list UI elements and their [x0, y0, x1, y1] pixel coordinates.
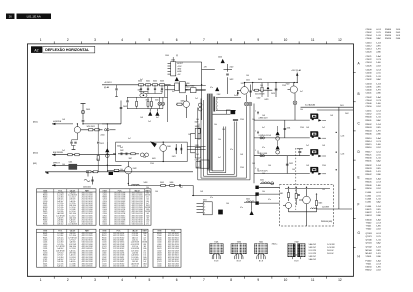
service pin black square: [226, 110, 235, 114]
warning arrow left: [105, 124, 109, 172]
svg-text:3k3: 3k3: [146, 217, 149, 219]
capacitor C2431: [284, 120, 291, 138]
svg-text:2-E5 2n2: 2-E5 2n2: [69, 259, 75, 261]
svg-text:VALUE: VALUE: [70, 230, 76, 233]
svg-text:M1402: M1402: [366, 253, 373, 255]
svg-text:C2402: C2402: [157, 250, 162, 252]
wire EW box to bus: [187, 147, 205, 150]
capacitor C2425 mid loop: [233, 119, 238, 120]
svg-text:2-C5 47n: 2-C5 47n: [57, 207, 63, 209]
svg-text:4822 050 52348: 4822 050 52348: [168, 250, 179, 252]
svg-text:2422: 2422: [230, 67, 234, 69]
svg-text:3422: 3422: [230, 79, 234, 81]
svg-text:R3414: R3414: [366, 141, 373, 143]
svg-text:1: 1: [204, 204, 205, 206]
svg-text:1: 1: [40, 38, 42, 42]
svg-text:L5440: L5440: [366, 206, 373, 208]
svg-text:7: 7: [203, 38, 205, 42]
svg-text:7441: 7441: [259, 241, 263, 243]
svg-text:4u7: 4u7: [180, 187, 183, 189]
svg-text:1-D4 680: 1-D4 680: [132, 253, 138, 255]
svg-text:1402: 1402: [257, 98, 261, 100]
svg-text:R3404: R3404: [366, 130, 373, 132]
svg-text:R3442: R3442: [366, 174, 373, 176]
svg-text:100: 100: [292, 169, 295, 171]
net stub GND with arrow: [52, 163, 122, 167]
column numbers bottom ruler: [40, 278, 342, 282]
pinout block 7441: [255, 241, 268, 262]
svg-text:100k: 100k: [143, 233, 147, 235]
svg-text:2420: 2420: [218, 57, 222, 59]
svg-text:10k: 10k: [262, 191, 265, 193]
divider R3412 C2412: [97, 124, 104, 172]
svg-text:4u7: 4u7: [144, 237, 147, 239]
value labels: [62, 75, 333, 209]
svg-text:D6421: D6421: [102, 248, 107, 250]
svg-text:47n: 47n: [146, 197, 149, 199]
svg-text:2-C5 680: 2-C5 680: [69, 263, 75, 265]
svg-text:R3445: R3445: [366, 182, 373, 184]
svg-text:2-C5 3k3: 2-C5 3k3: [57, 197, 63, 199]
svg-text:2: 2: [204, 207, 205, 209]
pincushion module dashed box: [280, 185, 334, 226]
svg-text:2122 341 96162: 2122 341 96162: [114, 201, 125, 203]
svg-text:R3421: R3421: [43, 237, 48, 239]
svg-text:2: 2: [255, 168, 256, 170]
svg-text:2-D6 EW: 2-D6 EW: [322, 206, 329, 208]
svg-text:(6) A6: (6) A6: [104, 86, 109, 89]
capacitor C2421: [246, 79, 252, 97]
svg-text:4822 116 83415: 4822 116 83415: [82, 248, 93, 250]
svg-text:3406: 3406: [181, 101, 185, 103]
wire pincushion bottom: [289, 212, 317, 226]
svg-text:POS.: POS.: [171, 231, 176, 233]
svg-text:5322 310 41234: 5322 310 41234: [82, 222, 93, 224]
svg-text:B C E: B C E: [259, 261, 263, 263]
svg-text:R3400: R3400: [43, 220, 48, 222]
svg-text:4822 116 83415: 4822 116 83415: [114, 224, 125, 226]
svg-text:4u7: 4u7: [128, 138, 131, 140]
svg-text:10k: 10k: [252, 119, 255, 121]
svg-text:R3410: R3410: [366, 138, 373, 140]
svg-text:4822 050 52348: 4822 050 52348: [114, 193, 125, 195]
svg-text:Q7421: Q7421: [102, 246, 107, 248]
resistor R3420: [195, 122, 201, 141]
svg-text:3415: 3415: [155, 100, 159, 102]
svg-text:2122 341 96162: 2122 341 96162: [113, 248, 124, 250]
svg-text:100: 100: [196, 119, 199, 121]
deflection yoke wiring loop bus: [198, 94, 250, 180]
wire lower bus: [192, 196, 256, 203]
svg-text:1-D4 3k3: 1-D4 3k3: [69, 257, 75, 259]
wire junctions: [77, 82, 337, 196]
svg-text:PART: PART: [143, 230, 147, 233]
svg-text:7422: 7422: [286, 84, 290, 86]
svg-text:2-C5 BY228: 2-C5 BY228: [56, 246, 64, 248]
svg-text:D6440: D6440: [366, 220, 373, 222]
svg-text:4822 050 52348: 4822 050 52348: [82, 257, 93, 259]
svg-text:4u7: 4u7: [140, 79, 143, 81]
svg-text:(B11): (B11): [33, 122, 38, 124]
damper diode D6421: [253, 83, 273, 96]
svg-text:C2441: C2441: [43, 235, 48, 237]
svg-text:2: 2: [67, 278, 69, 282]
svg-text:7421: 7421: [241, 83, 245, 85]
parts table 4: [100, 229, 149, 267]
svg-text:1-C4 33V: 1-C4 33V: [327, 244, 335, 246]
line-output coil connector hook 1: [259, 114, 327, 122]
wire yoke feeder bus: [253, 104, 255, 184]
svg-text:2n2: 2n2: [62, 150, 65, 152]
svg-text:D6450: D6450: [366, 267, 373, 269]
svg-text:2421: 2421: [246, 79, 250, 81]
svg-text:C2402: C2402: [43, 213, 48, 215]
svg-text:7442: 7442: [133, 168, 137, 170]
svg-text:VALUE: VALUE: [132, 230, 138, 233]
svg-text:C2420: C2420: [366, 52, 373, 54]
svg-text:R3410: R3410: [102, 240, 107, 242]
svg-text:PART: PART: [146, 189, 150, 192]
svg-text:2412: 2412: [100, 143, 104, 145]
svg-text:2122 341 96162: 2122 341 96162: [82, 201, 93, 203]
svg-text:5322 310 41234: 5322 310 41234: [113, 259, 124, 261]
svg-text:2-C5 100k: 2-C5 100k: [69, 235, 76, 237]
svg-text:GND: GND: [177, 69, 182, 71]
svg-text:2-C5 10k: 2-C5 10k: [132, 246, 138, 248]
svg-text:Q7421: Q7421: [43, 209, 48, 211]
svg-text:2423: 2423: [271, 93, 275, 95]
capacitor C2402: [102, 101, 127, 124]
svg-text:VALUE: VALUE: [70, 189, 76, 192]
svg-text:4822 122 32655: 4822 122 32655: [82, 215, 93, 217]
svg-text:2n2: 2n2: [148, 121, 151, 123]
coil L5402: [244, 199, 256, 203]
svg-text:4822 152 10346: 4822 152 10346: [168, 246, 179, 248]
svg-text:2: 2: [255, 130, 256, 132]
svg-text:2401: 2401: [86, 109, 90, 111]
svg-text:3-C2 AQUAD: 3-C2 AQUAD: [305, 104, 316, 107]
svg-text:100: 100: [246, 75, 249, 77]
svg-text:3403: 3403: [160, 81, 164, 83]
svg-text:2-C3 4u7: 2-C3 4u7: [69, 197, 75, 199]
driver transformer T7402: [213, 94, 241, 112]
wire yoke rail 3: [254, 155, 310, 157]
svg-text:2-C3 680: 2-C3 680: [132, 235, 138, 237]
svg-text:C2424: C2424: [366, 62, 373, 64]
svg-text:DEFLEXÃO HORIZONTAL: DEFLEXÃO HORIZONTAL: [45, 47, 90, 52]
svg-text:C2428: C2428: [366, 70, 373, 72]
svg-text:POS.: POS.: [58, 231, 63, 233]
svg-text:C2412: C2412: [366, 46, 373, 48]
svg-text:C2421: C2421: [43, 246, 48, 248]
svg-text:R3402: R3402: [366, 124, 373, 126]
svg-text:R3433: R3433: [102, 197, 107, 199]
svg-text:4822 152 10346: 4822 152 10346: [82, 207, 93, 209]
row letters right ruler: [358, 62, 361, 259]
warning arrow 3: [218, 57, 225, 64]
svg-text:POS.: POS.: [58, 190, 63, 192]
svg-text:2-E1: 2-E1: [340, 105, 344, 107]
resistor on ground bus: [86, 171, 97, 173]
svg-text:1k8: 1k8: [140, 117, 143, 119]
svg-text:1k8: 1k8: [322, 145, 325, 147]
svg-text:8: 8: [230, 278, 232, 282]
svg-text:10: 10: [284, 38, 288, 42]
plug P1 on rail2: [260, 137, 265, 139]
jumper plug 2: [248, 102, 252, 106]
svg-text:C2421: C2421: [102, 211, 107, 213]
svg-text:D6423: D6423: [102, 250, 107, 252]
column numbers top ruler: [40, 38, 342, 42]
svg-text:5: 5: [149, 38, 151, 42]
wire +13V feed: [291, 69, 301, 83]
svg-text:C2421: C2421: [366, 56, 373, 58]
svg-text:C2426: C2426: [366, 65, 373, 67]
svg-text:2431: 2431: [287, 127, 291, 129]
svg-text:L5400: L5400: [43, 244, 47, 246]
svg-text:2n2: 2n2: [322, 127, 325, 129]
svg-text:ITEM: ITEM: [102, 231, 107, 233]
svg-text:5322 310 41234: 5322 310 41234: [168, 261, 179, 263]
svg-text:2-B6 BY228: 2-B6 BY228: [56, 250, 64, 252]
svg-text:3424: 3424: [258, 79, 262, 81]
svg-text:2-B6 100k: 2-B6 100k: [69, 205, 76, 207]
svg-text:EW-DRIVE: EW-DRIVE: [53, 152, 64, 154]
svg-text:2: 2: [67, 38, 69, 42]
svg-text:47n: 47n: [230, 149, 233, 151]
svg-text:R3400: R3400: [43, 217, 48, 219]
svg-text:Q7403: Q7403: [366, 233, 373, 235]
svg-text:4822 050 52348: 4822 050 52348: [114, 195, 125, 197]
svg-text:10k: 10k: [218, 139, 221, 141]
svg-text:1-C8: 1-C8: [341, 153, 345, 155]
svg-text:ITEM: ITEM: [103, 190, 108, 192]
svg-text:4822 050 52348: 4822 050 52348: [132, 215, 143, 217]
svg-text:4-C4 4u7: 4-C4 4u7: [69, 215, 75, 217]
svg-text:10k: 10k: [144, 235, 147, 237]
svg-text:4u7: 4u7: [218, 157, 221, 159]
wire yoke rail 1: [254, 119, 310, 121]
row letter tick marks: [354, 73, 356, 248]
svg-text:R3421: R3421: [102, 207, 107, 209]
svg-text:100k: 100k: [146, 209, 150, 211]
svg-text:1-C4 33V: 1-C4 33V: [327, 247, 335, 249]
svg-text:T7401: T7401: [366, 226, 373, 228]
svg-text:1k8: 1k8: [268, 135, 271, 137]
svg-text:1-F3 3k3: 1-F3 3k3: [57, 235, 63, 237]
svg-text:C2430: C2430: [366, 73, 373, 75]
svg-text:4822 122 32655: 4822 122 32655: [82, 211, 93, 213]
svg-text:100: 100: [62, 164, 65, 166]
capacitor C2401: [115, 85, 118, 97]
ground arrow: [250, 202, 254, 215]
svg-text:4822 116 83415: 4822 116 83415: [132, 193, 143, 195]
svg-text:9: 9: [257, 278, 259, 282]
rail pin marks: [255, 111, 258, 172]
capacitor C2433: [297, 149, 303, 156]
schematic frame: [27, 44, 354, 277]
svg-text:R3410: R3410: [102, 237, 107, 239]
svg-text:4822 122 32655: 4822 122 32655: [168, 253, 179, 255]
jumper plug 3: [293, 101, 297, 120]
svg-text:4822 122 32655: 4822 122 32655: [132, 205, 143, 207]
svg-text:2442: 2442: [120, 150, 124, 152]
svg-text:2122 341 96162: 2122 341 96162: [132, 220, 143, 222]
svg-text:7421: 7421: [214, 241, 218, 243]
svg-text:4822 122 32655: 4822 122 32655: [132, 207, 143, 209]
svg-text:2122 341 96162: 2122 341 96162: [113, 263, 124, 265]
svg-text:R3414: R3414: [385, 38, 392, 40]
svg-text:Q7421: Q7421: [43, 261, 48, 263]
svg-text:R3417: R3417: [366, 151, 373, 153]
svg-text:R3432: R3432: [366, 165, 373, 167]
svg-text:Q7442: Q7442: [366, 247, 373, 249]
EW output coil L5442: [311, 206, 353, 209]
svg-text:1500: 1500: [171, 60, 175, 62]
svg-text:ITEM: ITEM: [157, 231, 162, 233]
svg-text:4: 4: [204, 213, 205, 215]
svg-text:R3421: R3421: [43, 215, 48, 217]
svg-text:6423: 6423: [265, 99, 269, 101]
wire top mid: [224, 64, 234, 94]
svg-text:1-C6 1N41: 1-C6 1N41: [131, 259, 138, 261]
svg-text:R3443: R3443: [366, 179, 373, 181]
svg-text:L5400: L5400: [103, 224, 107, 226]
svg-text:4u7: 4u7: [156, 117, 159, 119]
svg-text:C2431: C2431: [43, 248, 48, 250]
svg-text:2-C5 680: 2-C5 680: [69, 266, 75, 268]
svg-text:2122 341 96162: 2122 341 96162: [82, 197, 93, 199]
svg-text:47n: 47n: [144, 250, 147, 252]
svg-text:680: 680: [146, 193, 149, 195]
spark gap arrow pair: [148, 109, 159, 116]
svg-text:100: 100: [143, 157, 146, 159]
svg-text:ITEM: ITEM: [43, 231, 48, 233]
svg-text:B: B: [358, 92, 360, 96]
wire driver collector feed: [176, 62, 215, 120]
svg-text:D6421: D6421: [157, 248, 162, 250]
svg-text:4822 152 10346: 4822 152 10346: [82, 244, 93, 246]
svg-text:R3406: R3406: [385, 32, 392, 34]
svg-text:47n: 47n: [210, 87, 213, 89]
svg-text:1-C6 1N41: 1-C6 1N41: [69, 244, 76, 246]
svg-text:3: 3: [94, 38, 96, 42]
svg-text:2200: 2200: [150, 163, 154, 165]
svg-text:1-C6 10k: 1-C6 10k: [57, 205, 63, 207]
svg-text:2432: 2432: [289, 163, 293, 165]
svg-text:D6421: D6421: [157, 257, 162, 259]
net label B11: [33, 122, 38, 124]
svg-text:A2: A2: [34, 48, 38, 52]
svg-text:D6421: D6421: [102, 222, 107, 224]
svg-text:2-C5 BC858: 2-C5 BC858: [68, 224, 76, 226]
svg-text:C2422: C2422: [366, 59, 373, 61]
svg-text:1k8: 1k8: [330, 115, 333, 117]
svg-text:11: 11: [311, 38, 315, 42]
svg-text:4822 050 52348: 4822 050 52348: [168, 248, 179, 250]
wire output stage top rail: [245, 82, 298, 84]
svg-text:C2410: C2410: [157, 263, 162, 265]
svg-text:1k8: 1k8: [260, 85, 263, 87]
pinout block 7421: [210, 241, 224, 262]
svg-text:C2444: C2444: [366, 100, 373, 102]
svg-text:3n3: 3n3: [234, 95, 237, 97]
svg-text:3n3: 3n3: [120, 147, 123, 149]
svg-text:4822 116 83415: 4822 116 83415: [114, 222, 125, 224]
svg-text:4-C4 3k3: 4-C4 3k3: [57, 195, 63, 197]
svg-text:5322 310 41234: 5322 310 41234: [132, 197, 143, 199]
svg-text:100k: 100k: [143, 257, 147, 259]
feedback network R3421: [191, 103, 203, 168]
svg-text:D6423: D6423: [157, 255, 162, 257]
svg-text:4822 152 10346: 4822 152 10346: [82, 233, 93, 235]
svg-text:100: 100: [268, 165, 271, 167]
svg-text:Q7421: Q7421: [102, 233, 107, 235]
transistor Q7422: [286, 83, 298, 101]
warning arrow rail2: [276, 126, 280, 140]
svg-text:C2441: C2441: [43, 242, 48, 244]
svg-text:4u7: 4u7: [172, 91, 175, 93]
svg-text:R3410: R3410: [43, 195, 48, 197]
svg-text:F: F: [358, 203, 360, 207]
svg-text:R3421: R3421: [102, 203, 107, 205]
svg-text:4822 152 10346: 4822 152 10346: [82, 209, 93, 211]
svg-text:2: 2: [255, 150, 256, 152]
svg-text:R3400: R3400: [366, 117, 373, 119]
svg-text:1k8: 1k8: [200, 191, 203, 193]
svg-text:3404: 3404: [186, 86, 190, 88]
svg-text:3421: 3421: [195, 126, 199, 128]
driver stage U7401: [165, 82, 206, 98]
pin voltage list: [309, 243, 336, 261]
diode D6402: [191, 86, 206, 93]
svg-text:10k: 10k: [214, 124, 217, 126]
svg-text:2-E5 22u: 2-E5 22u: [57, 237, 63, 239]
svg-text:2-E5 1N41: 2-E5 1N41: [131, 250, 138, 252]
svg-text:4822 116 83415: 4822 116 83415: [114, 205, 125, 207]
svg-text:Q7441: Q7441: [366, 242, 373, 244]
connector pin J1: [255, 186, 279, 189]
svg-text:1-F3 4u7: 1-F3 4u7: [69, 240, 75, 242]
svg-text:12: 12: [338, 38, 342, 42]
svg-text:2-C3 22u: 2-C3 22u: [57, 203, 63, 205]
svg-text:100: 100: [226, 203, 229, 205]
svg-text:R3410: R3410: [385, 35, 392, 37]
svg-text:1k8: 1k8: [252, 163, 255, 165]
svg-text:10k: 10k: [300, 109, 303, 111]
svg-text:2200: 2200: [322, 165, 326, 167]
svg-text:2122 341 96162: 2122 341 96162: [168, 259, 179, 261]
svg-text:C2400: C2400: [157, 235, 162, 237]
svg-text:4u7: 4u7: [262, 127, 265, 129]
svg-text:D6424: D6424: [366, 215, 373, 217]
svg-text:R3433: R3433: [157, 259, 162, 261]
svg-text:2200: 2200: [240, 119, 244, 121]
svg-text:100: 100: [188, 134, 191, 136]
coil L5403: [132, 184, 140, 185]
svg-text:1-D4 BY228: 1-D4 BY228: [131, 242, 139, 244]
svg-text:R3446: R3446: [366, 185, 373, 187]
svg-text:1-C6 1n5: 1-C6 1n5: [69, 207, 75, 209]
svg-text:C2402: C2402: [366, 32, 373, 34]
svg-text:4u7: 4u7: [146, 203, 149, 205]
svg-text:R3441: R3441: [43, 233, 48, 235]
svg-text:T7402: T7402: [366, 229, 373, 231]
svg-text:5322 310 41234: 5322 310 41234: [132, 224, 143, 226]
svg-text:2122 341 96162: 2122 341 96162: [168, 233, 179, 235]
wire top right 1: [301, 104, 354, 108]
transistor Q7421 H-OUT: [237, 83, 248, 102]
